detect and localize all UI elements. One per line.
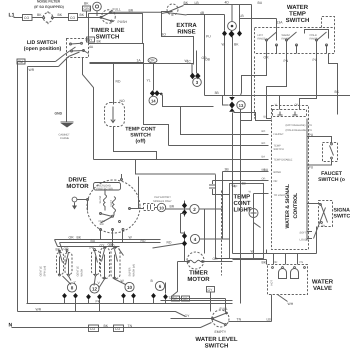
svg-text:(HOT RELEASE): (HOT RELEASE) <box>286 124 306 127</box>
svg-text:VALVE: VALVE <box>313 285 332 292</box>
svg-text:SWITCH: SWITCH <box>286 17 310 24</box>
svg-text:RD: RD <box>110 244 115 248</box>
svg-text:BK: BK <box>84 2 89 6</box>
svg-text:1T: 1T <box>246 208 250 212</box>
svg-text:RINSE: RINSE <box>310 37 318 40</box>
svg-text:10: 10 <box>127 285 133 290</box>
svg-text:WR: WR <box>29 68 35 72</box>
svg-text:4D: 4D <box>225 1 230 5</box>
svg-text:13A: 13A <box>277 21 284 25</box>
svg-text:2: 2 <box>193 207 196 212</box>
svg-text:SLOW: SLOW <box>99 195 102 203</box>
svg-text:GD: GD <box>183 297 189 301</box>
svg-text:YL: YL <box>147 79 151 83</box>
svg-text:MODELS ONLY: MODELS ONLY <box>153 200 172 203</box>
svg-text:14: 14 <box>151 98 156 103</box>
svg-text:BOND: BOND <box>274 171 282 174</box>
svg-text:NO: NO <box>120 99 125 103</box>
svg-text:BR: BR <box>170 205 175 209</box>
svg-text:BU: BU <box>258 1 263 5</box>
svg-text:PUSH: PUSH <box>118 20 128 24</box>
svg-text:BK: BK <box>80 13 85 17</box>
svg-text:CO: CO <box>115 327 120 331</box>
svg-text:GENTLE: GENTLE <box>40 266 43 277</box>
svg-text:WH: WH <box>288 302 294 306</box>
svg-text:GY: GY <box>208 288 214 292</box>
svg-text:OB: OB <box>205 58 211 62</box>
svg-text:BO: BO <box>262 130 266 133</box>
svg-text:3B: 3B <box>215 91 220 95</box>
svg-text:WATER: WATER <box>312 279 334 286</box>
svg-text:RD: RD <box>116 80 121 84</box>
svg-text:(open position): (open position) <box>24 46 62 52</box>
svg-text:WR: WR <box>36 308 42 312</box>
svg-text:4F: 4F <box>234 185 238 189</box>
svg-text:RINSE: RINSE <box>177 29 195 36</box>
svg-text:BU: BU <box>264 115 268 118</box>
svg-text:BR: BR <box>129 8 134 12</box>
svg-text:FAUCET: FAUCET <box>274 133 285 136</box>
svg-text:BK: BK <box>104 324 109 328</box>
svg-text:4: 4 <box>194 237 197 242</box>
svg-text:RINSE: RINSE <box>258 37 266 40</box>
svg-text:OR: OR <box>173 297 179 301</box>
svg-text:TEMP DISABLE: TEMP DISABLE <box>274 159 293 162</box>
svg-text:BU: BU <box>264 168 269 172</box>
svg-text:SWITCH: SWITCH <box>205 343 229 350</box>
svg-text:BK: BK <box>56 248 61 252</box>
svg-text:8: 8 <box>71 286 74 291</box>
svg-text:LB: LB <box>267 318 272 322</box>
svg-text:WASH (of): WASH (of) <box>133 264 136 276</box>
svg-text:PU: PU <box>313 58 318 62</box>
svg-text:OR: OR <box>213 257 219 261</box>
svg-text:WATER LEVEL: WATER LEVEL <box>195 336 238 343</box>
svg-text:TEMP: TEMP <box>234 194 251 201</box>
svg-text:(off): (off) <box>135 139 145 145</box>
svg-text:OR: OR <box>274 261 278 264</box>
svg-text:EMPTY: EMPTY <box>215 330 227 334</box>
svg-text:TN: TN <box>237 318 242 322</box>
svg-text:TIMER LINE: TIMER LINE <box>91 27 125 34</box>
svg-text:13: 13 <box>239 103 244 108</box>
svg-text:SOFT: SOFT <box>300 232 307 235</box>
svg-text:OR: OR <box>262 178 266 181</box>
svg-text:BK: BK <box>335 90 340 94</box>
svg-text:SWITCH: SWITCH <box>334 214 350 220</box>
svg-text:BN: BN <box>322 225 326 228</box>
svg-text:WATER: WATER <box>287 4 309 11</box>
svg-text:RD: RD <box>167 241 172 245</box>
svg-text:BK: BK <box>97 39 102 43</box>
svg-text:CO: CO <box>90 327 95 331</box>
svg-text:MOTOR: MOTOR <box>66 183 89 190</box>
svg-text:CONT: CONT <box>234 200 251 207</box>
svg-text:TM: TM <box>18 60 23 64</box>
svg-text:FULL: FULL <box>220 307 228 311</box>
svg-text:PU: PU <box>309 129 313 132</box>
svg-text:4A: 4A <box>89 45 94 49</box>
svg-text:PU: PU <box>309 124 313 127</box>
svg-text:TIMER: TIMER <box>189 270 208 277</box>
svg-text:FULL: FULL <box>113 8 121 12</box>
svg-text:PN: PN <box>284 59 289 63</box>
svg-text:SPIN (of): SPIN (of) <box>44 266 47 277</box>
svg-text:1A: 1A <box>137 58 142 62</box>
svg-text:BO: BO <box>262 142 266 145</box>
svg-text:BO: BO <box>161 33 166 37</box>
svg-text:OR: OR <box>150 59 156 63</box>
svg-text:GY: GY <box>185 314 191 318</box>
svg-text:PU: PU <box>309 166 314 170</box>
svg-text:MOTOR: MOTOR <box>187 276 210 283</box>
svg-text:CO: CO <box>70 16 75 20</box>
svg-text:GENTLE: GENTLE <box>77 266 80 277</box>
svg-text:EXTRA: EXTRA <box>176 22 197 29</box>
svg-text:GND: GND <box>55 112 63 116</box>
svg-text:FRAME: FRAME <box>60 137 69 140</box>
svg-text:BK: BK <box>262 261 267 265</box>
svg-text:SUPER: SUPER <box>129 267 132 276</box>
svg-text:BK: BK <box>37 13 42 17</box>
svg-text:SWITCH: SWITCH <box>274 148 284 151</box>
svg-text:PN: PN <box>300 261 304 264</box>
svg-text:1B: 1B <box>242 182 247 186</box>
svg-text:RD: RD <box>141 239 146 243</box>
svg-text:OR: OR <box>69 236 75 240</box>
svg-text:CAP EXPORT: CAP EXPORT <box>154 196 171 199</box>
svg-text:TO LIGHT: TO LIGHT <box>274 194 286 197</box>
svg-text:BK: BK <box>234 43 239 47</box>
svg-text:RINSE: RINSE <box>282 37 290 40</box>
svg-text:PU: PU <box>90 246 95 250</box>
svg-text:GY: GY <box>100 244 106 248</box>
svg-text:(IF SO EQUIPPED): (IF SO EQUIPPED) <box>34 5 64 9</box>
svg-text:BU: BU <box>91 239 96 243</box>
svg-text:CONTROL: CONTROL <box>293 192 299 218</box>
svg-text:LOUD: LOUD <box>300 239 307 242</box>
svg-text:6: 6 <box>159 284 162 289</box>
svg-text:10: 10 <box>159 206 164 211</box>
svg-text:WASH: WASH <box>81 269 84 277</box>
svg-text:TEMP: TEMP <box>289 11 306 18</box>
svg-text:SWITCH (o: SWITCH (o <box>318 177 345 183</box>
svg-text:OR: OR <box>64 247 70 251</box>
svg-text:BA: BA <box>262 156 266 159</box>
svg-text:PU: PU <box>206 35 211 39</box>
svg-text:BK: BK <box>77 236 82 240</box>
svg-text:LB: LB <box>240 14 245 18</box>
svg-text:CO: CO <box>24 16 29 20</box>
svg-text:NOISE FILTER: NOISE FILTER <box>37 0 61 4</box>
svg-text:GRD: GRD <box>84 7 92 11</box>
svg-text:FAST: FAST <box>110 200 113 207</box>
svg-text:TN: TN <box>128 324 133 328</box>
svg-text:SW: SW <box>100 223 105 226</box>
svg-text:HOT: HOT <box>271 280 274 286</box>
svg-text:OR: OR <box>274 180 278 183</box>
svg-text:(COLD RELEASE): (COLD RELEASE) <box>286 129 308 132</box>
svg-text:PK: PK <box>96 300 101 304</box>
svg-text:PU: PU <box>309 133 314 137</box>
svg-text:BK: BK <box>58 13 63 17</box>
svg-text:DRIVE: DRIVE <box>68 177 86 184</box>
svg-text:3B: 3B <box>225 168 230 172</box>
svg-text:OR: OR <box>264 56 270 60</box>
svg-text:12: 12 <box>92 287 98 292</box>
svg-text:WATER & SIGNAL: WATER & SIGNAL <box>285 183 291 228</box>
